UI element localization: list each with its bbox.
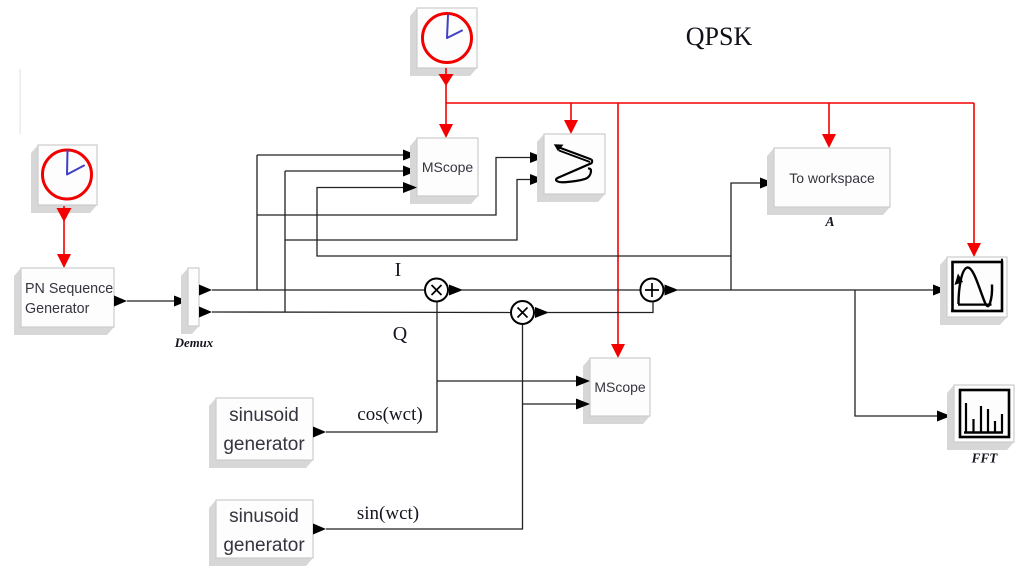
wire red bus horizontal [446,102,974,104]
wire tap to FFT block [855,290,951,422]
block To workspace U3 [767,148,890,215]
svg-text:sinusoid: sinusoid [229,405,299,426]
adder A1 [641,279,664,302]
wire PN to Demux [127,296,188,307]
svg-text:A: A [824,214,834,229]
block MScope U1 [410,138,478,204]
block scope U4 [940,257,1007,325]
wire red: bus drop to MScope U6 (bottom) [611,103,625,358]
block sinusoid generator G1 [209,398,313,468]
wire M2 output to adder bottom [535,303,653,319]
wire I line: demux out1 to multiplier M1 [212,289,424,291]
wire sin carrier to M2 [326,325,523,529]
block PN Sequence Generator [14,268,114,335]
svg-text:PN Sequence: PN Sequence [25,281,113,297]
wire to MScope U1 input 2 [285,166,417,177]
wire red: bus drop to To workspace U3 [822,103,836,148]
wire M1 output to adder [449,285,640,296]
faint artifact line [20,69,21,134]
svg-text:I: I [395,259,402,281]
wire Q branch to XY scope input 2 [285,174,544,240]
clock block CLK2 (left) [31,145,97,213]
block MScope U6 (bottom) [583,358,650,424]
svg-text:FFT: FFT [971,451,999,466]
wire Q line: demux out2 to multiplier M2 [212,311,510,314]
svg-text:sin(wct): sin(wct) [357,503,419,524]
svg-text:generator: generator [223,535,305,556]
port PN output [114,296,127,307]
wire to MScope U1 input 1 [257,150,417,161]
wire I branch to XY scope input 1 [257,152,544,215]
wire red: CLK2 to PN generator [57,206,72,268]
multiplier M1 [425,279,448,302]
svg-text:MScope: MScope [594,379,646,395]
wire red: bus drop to scope U4 [967,103,981,257]
port demux out1 [199,285,212,296]
svg-text:Q: Q [393,323,408,345]
clock block CLK1 (top) [410,8,477,76]
block sinusoid generator G2 [209,500,313,566]
wire feedback to MScope U1 input 3 [317,182,731,256]
svg-text:To workspace: To workspace [789,170,875,186]
svg-text:Demux: Demux [174,336,214,350]
wire red: bus drop to MScope U1 [439,103,453,138]
svg-text:cos(wct): cos(wct) [357,404,422,425]
port G1 output [313,427,326,438]
wire sin branch to MScope U6 input 2 [523,399,591,410]
wire cos branch to MScope U6 input 1 [437,376,590,387]
block XY scope U2 [537,134,605,202]
wire red: CLK1 to red bus [439,68,454,103]
port G2 output [313,524,326,535]
svg-text:MScope: MScope [422,159,474,175]
svg-text:Generator: Generator [25,301,90,317]
svg-text:sinusoid: sinusoid [229,506,299,527]
wire I tap vertical at x257 [256,155,258,290]
port demux out2 [199,307,212,318]
svg-text:generator: generator [223,434,305,455]
multiplier M2 [511,301,534,324]
wire feedback to To workspace [731,178,774,291]
wire red: bus drop to XY scope U2 [564,103,578,134]
wire cos carrier to M1 [326,303,437,433]
svg-text:QPSK: QPSK [686,22,753,51]
wire adder output to scope U4 [665,285,948,296]
block FFT U5 [947,385,1014,450]
wire Q tap vertical at x285 [284,171,286,312]
demux block [181,268,199,334]
